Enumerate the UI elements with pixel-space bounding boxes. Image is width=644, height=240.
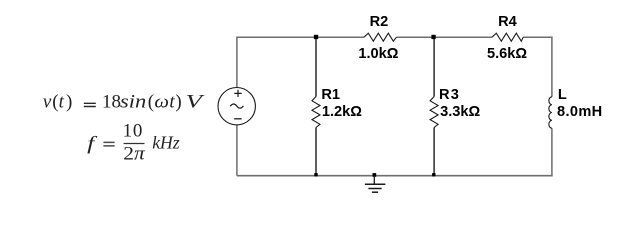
junction dot bottom R3 node bbox=[432, 173, 435, 176]
AC source minus sign bbox=[234, 118, 241, 120]
svg-text:t: t bbox=[59, 91, 65, 112]
wire left upper (source top lead) bbox=[236, 37, 238, 88]
svg-text:1.0kΩ: 1.0kΩ bbox=[358, 46, 398, 62]
svg-text:R4: R4 bbox=[498, 14, 518, 30]
junction dot top R3 node bbox=[431, 35, 435, 39]
wire right upper (inductor top lead) bbox=[551, 37, 553, 97]
ground symbol bbox=[365, 176, 386, 193]
svg-text:f: f bbox=[87, 133, 98, 154]
wire R1 top lead bbox=[315, 37, 317, 96]
wire R3 top lead bbox=[433, 37, 435, 96]
svg-text:8.0mH: 8.0mH bbox=[557, 104, 603, 120]
wire R3 bottom lead bbox=[433, 128, 435, 176]
junction dot top R1 node bbox=[314, 35, 318, 39]
svg-text:): ) bbox=[66, 91, 72, 112]
svg-text:18: 18 bbox=[102, 91, 121, 112]
wire top-middle segment bbox=[397, 36, 493, 38]
wire top-left segment bbox=[237, 36, 364, 38]
resistor R2 zigzag bbox=[364, 33, 397, 41]
svg-text:3.3kΩ: 3.3kΩ bbox=[440, 104, 480, 120]
source equation line 2: f = 10/2pi kHz bbox=[87, 121, 180, 165]
svg-text:1.2kΩ: 1.2kΩ bbox=[322, 104, 362, 120]
svg-text:2π: 2π bbox=[123, 143, 145, 164]
AC source V1 circle bbox=[218, 88, 255, 125]
resistor R4 zigzag bbox=[492, 33, 523, 41]
svg-text:(: ( bbox=[52, 91, 58, 112]
resistor R3 zigzag bbox=[430, 97, 438, 128]
svg-text:kHz: kHz bbox=[152, 133, 180, 153]
svg-text:R3: R3 bbox=[439, 87, 460, 103]
junction dot ground node bbox=[373, 173, 377, 177]
wire top-right segment bbox=[523, 36, 552, 38]
wire left lower (source bottom lead) bbox=[236, 125, 238, 176]
svg-text:v: v bbox=[43, 91, 52, 112]
svg-text:V: V bbox=[186, 91, 206, 112]
svg-text:(: ( bbox=[148, 91, 154, 112]
inductor L coil bbox=[549, 97, 552, 128]
svg-text:R1: R1 bbox=[321, 87, 340, 103]
source equation line 1: v(t) = 18sin(wt) V bbox=[43, 91, 205, 112]
wire bottom bbox=[237, 175, 553, 177]
svg-text:5.6kΩ: 5.6kΩ bbox=[487, 46, 527, 62]
svg-text:sin: sin bbox=[120, 91, 146, 112]
resistor R1 zigzag bbox=[312, 97, 320, 128]
svg-text:10: 10 bbox=[123, 121, 144, 142]
junction dot bottom R1 node bbox=[314, 173, 317, 176]
svg-text:ω: ω bbox=[154, 91, 169, 112]
AC source sine symbol bbox=[230, 104, 243, 108]
svg-text:R2: R2 bbox=[370, 14, 389, 30]
svg-text:L: L bbox=[558, 87, 567, 103]
wire R1 bottom lead bbox=[315, 128, 317, 176]
AC source plus sign bbox=[234, 90, 241, 97]
wire right lower (inductor bottom lead) bbox=[551, 128, 553, 176]
svg-text:): ) bbox=[175, 91, 181, 112]
